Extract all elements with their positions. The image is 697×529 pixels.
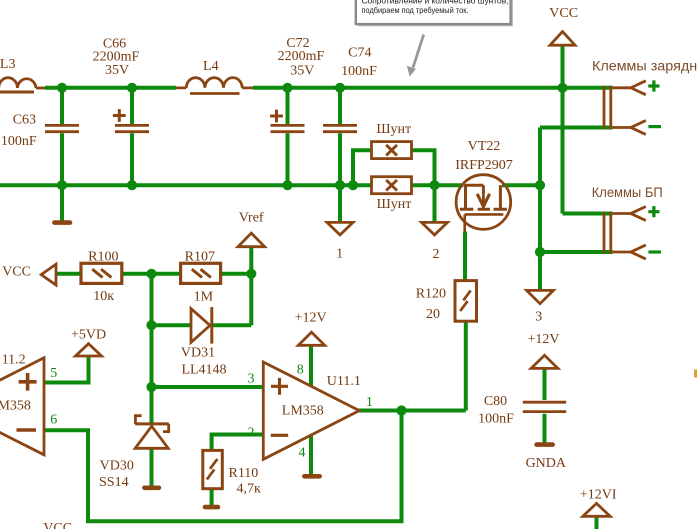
minus label PSU (green) [648, 250, 661, 253]
svg-text:+12V: +12V [527, 332, 559, 347]
wire R100 stubs [56, 272, 152, 276]
wire +12V to C80 to GNDA [543, 368, 547, 442]
ground bar below C63 [54, 220, 70, 225]
wire to pin 3 [152, 385, 264, 389]
capacitor C74 [323, 125, 357, 131]
wire VD31 branch [152, 274, 252, 325]
ground bar below VD30 [144, 485, 159, 490]
svg-text:100nF: 100nF [1, 134, 37, 149]
svg-text:C80: C80 [484, 394, 507, 409]
svg-text:Клеммы БП: Клеммы БП [592, 184, 663, 200]
wire stem to pad 3 [538, 252, 542, 290]
wire MOSFET drain [502, 183, 540, 187]
ground bar GNDA [537, 442, 553, 447]
minus label charger (green) [648, 125, 661, 128]
svg-text:11.2: 11.2 [2, 353, 26, 368]
svg-text:R110: R110 [228, 466, 258, 481]
svg-text:подбираем под требуемый ток.: подбираем под требуемый ток. [362, 6, 469, 15]
svg-text:10к: 10к [93, 289, 114, 304]
transistor VT22 MOSFET [456, 175, 511, 232]
svg-text:1: 1 [336, 246, 343, 261]
svg-text:VCC: VCC [43, 521, 72, 529]
svg-text:L4: L4 [203, 59, 219, 74]
connector charger plus lead [613, 81, 646, 95]
svg-text:Шунт: Шунт [376, 122, 411, 137]
wire C63 stubs and ground stub [60, 88, 64, 221]
wire C72 stubs [286, 88, 290, 185]
connector PSU plus lead [613, 207, 646, 221]
power +12V up-arrow (C80) [531, 355, 558, 368]
wire R110 bottom [210, 489, 214, 505]
power VCC up-arrow top [550, 32, 575, 46]
pad 2 down-arrow [422, 222, 448, 235]
ground bar below R110 [205, 505, 218, 510]
svg-text:LL4148: LL4148 [181, 362, 226, 377]
wire VD30 cathode to ground [150, 448, 154, 486]
svg-text:100nF: 100nF [341, 64, 377, 79]
connector charger terminals (bars) [604, 86, 611, 129]
wire PSU plus horizontal [563, 212, 613, 216]
svg-text:LM358: LM358 [0, 399, 31, 414]
wire stem to pad 2 [433, 185, 437, 222]
wire pin 5 to +5VD [44, 356, 89, 382]
wire +12VI stub [595, 516, 599, 529]
wire C74 stubs [338, 88, 342, 185]
resistor R110 [203, 450, 223, 488]
wire pin 8 to +12V [309, 345, 313, 386]
wire C66 stubs [130, 88, 134, 185]
connector PSU minus lead [613, 245, 646, 259]
wire top rail left segment [45, 86, 176, 90]
resistor R100 [81, 263, 122, 283]
plus label PSU (green) [648, 206, 659, 217]
diode VD31 [191, 307, 212, 344]
svg-text:2: 2 [433, 247, 440, 262]
wire MOSFET source to R120 [463, 232, 467, 281]
svg-text:GNDA: GNDA [526, 456, 567, 471]
svg-text:R100: R100 [88, 249, 118, 264]
svg-text:Клеммы зарядного: Клеммы зарядного [592, 58, 697, 74]
svg-text:20: 20 [426, 307, 440, 322]
capacitor C80 [523, 402, 566, 411]
svg-text:4: 4 [299, 445, 306, 460]
power +5VD up-arrow [76, 344, 102, 356]
note arrow [407, 35, 424, 77]
wire pin 4 to ground [309, 436, 313, 475]
svg-text:LM358: LM358 [282, 404, 324, 419]
power +12V up-arrow (pin 8) [298, 332, 324, 345]
wire charger minus horizontal [540, 126, 613, 130]
svg-text:VD30: VD30 [100, 459, 134, 474]
ground bar below pin 4 [304, 474, 319, 479]
resistor R107 [181, 263, 221, 283]
svg-text:6: 6 [50, 413, 57, 428]
svg-text:U11.1: U11.1 [327, 374, 361, 389]
wire Vref stem [249, 247, 253, 274]
svg-text:VCC: VCC [549, 6, 578, 21]
svg-text:1: 1 [366, 395, 373, 410]
svg-text:2: 2 [248, 426, 255, 441]
edge label fragment right [694, 370, 697, 378]
connector PSU terminals (bars) [604, 212, 611, 254]
wire bottom rail to MOSFET gate [412, 183, 464, 187]
svg-text:R107: R107 [185, 249, 215, 264]
svg-text:4,7к: 4,7к [236, 482, 261, 497]
svg-text:100nF: 100nF [478, 412, 514, 427]
power VCC left-arrow [41, 264, 56, 285]
connector charger minus lead [613, 121, 646, 135]
svg-text:3: 3 [248, 371, 255, 386]
svg-text:L3: L3 [0, 57, 15, 72]
power Vref up-arrow [238, 233, 265, 247]
svg-text:+12VI: +12VI [580, 488, 617, 503]
pad 3 down-arrow [527, 290, 554, 303]
svg-text:1M: 1M [194, 290, 214, 305]
svg-text:+12V: +12V [295, 311, 327, 326]
wire VCC trunk x562 [561, 45, 565, 213]
svg-text:VT22: VT22 [468, 139, 501, 154]
svg-text:5: 5 [50, 366, 57, 381]
svg-text:IRFP2907: IRFP2907 [455, 158, 513, 173]
svg-text:3: 3 [535, 310, 542, 325]
inductor L3 [0, 78, 45, 92]
svg-text:C74: C74 [348, 45, 371, 60]
op-amp U11.1 [263, 362, 359, 459]
wire bottom rail left segment [0, 183, 372, 187]
wire feedback loop to pin 6 [44, 411, 402, 522]
op-amp U11.2 [0, 358, 44, 455]
wire PSU minus horizontal [540, 250, 613, 254]
wire vertical trunk x151 [150, 274, 154, 424]
svg-text:Vref: Vref [239, 211, 264, 226]
capacitor C72 (polarized) [270, 110, 304, 132]
svg-text:+5VD: +5VD [71, 328, 106, 343]
svg-text:2200mF: 2200mF [278, 49, 325, 64]
svg-text:VCC: VCC [2, 264, 31, 279]
svg-text:SS14: SS14 [99, 475, 129, 490]
svg-text:C63: C63 [13, 113, 36, 128]
plus label charger (green) [648, 80, 659, 91]
wire R120 bottom to output node [464, 321, 468, 410]
wire top rail right segment [253, 86, 613, 90]
wire R107 stubs [152, 272, 252, 276]
svg-text:VD31: VD31 [181, 346, 215, 361]
wire pin 2 to R110 [212, 435, 264, 451]
diode VD30 schottky [135, 416, 169, 449]
svg-text:Шунт: Шунт [377, 197, 412, 212]
capacitor C66 (polarized) [113, 109, 149, 132]
power +12VI up-arrow [583, 503, 610, 516]
svg-text:35V: 35V [290, 64, 314, 79]
capacitor C63 [45, 125, 79, 131]
wire op-amp U11.1 output [359, 409, 466, 413]
svg-text:8: 8 [297, 363, 304, 378]
shunt resistor upper [372, 142, 412, 159]
wire upper shunt branch [353, 150, 435, 185]
note box [356, 0, 513, 26]
svg-text:35V: 35V [105, 63, 129, 78]
pad 1 down-arrow [327, 222, 353, 235]
resistor R120 [455, 281, 477, 322]
wire vertical x540 [538, 128, 542, 253]
svg-text:Сопротивление и количество шун: Сопротивление и количество шунтов, [362, 0, 509, 5]
wire stem to pad 1 [338, 185, 342, 222]
shunt resistor lower [372, 177, 412, 194]
inductor L4 [176, 78, 253, 94]
svg-text:R120: R120 [416, 286, 446, 301]
